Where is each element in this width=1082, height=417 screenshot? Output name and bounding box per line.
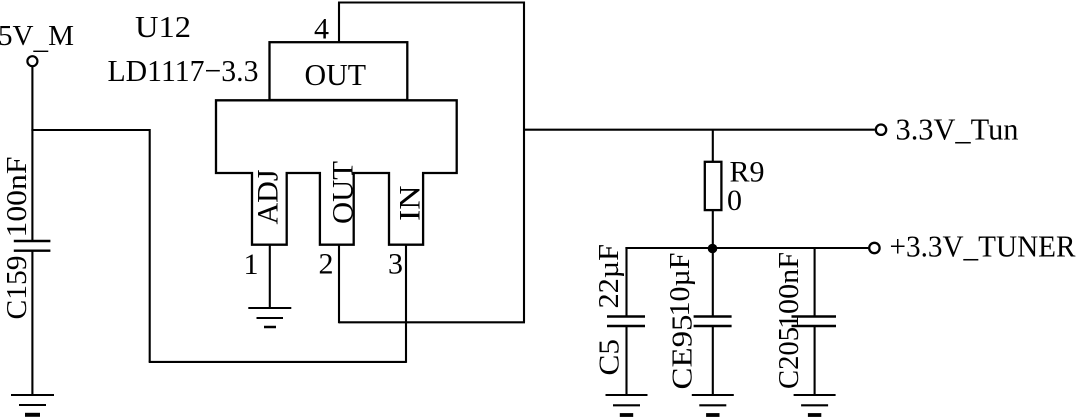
wire branch bottom horizontal to pin 3 bbox=[149, 361, 406, 363]
svg-text:C5: C5 bbox=[594, 339, 626, 376]
svg-text:100nF: 100nF bbox=[773, 252, 805, 329]
wire C159 bottom plate to ground bbox=[31, 252, 33, 396]
svg-text:C159: C159 bbox=[1, 256, 33, 320]
capacitor C159 plates bbox=[14, 240, 51, 242]
svg-text:IN: IN bbox=[394, 186, 427, 222]
svg-text:+3.3V_TUNER: +3.3V_TUNER bbox=[890, 229, 1076, 264]
svg-text:C205: C205 bbox=[773, 327, 805, 389]
wire rail down to R9 top bbox=[712, 130, 714, 162]
capacitor C205 plates bbox=[792, 315, 837, 317]
terminal +3.3V_TUNER bbox=[869, 243, 879, 253]
resistor R9 body bbox=[705, 162, 722, 210]
wire R9 bottom to node bbox=[712, 210, 714, 248]
wire pin 2 OUT vertical bbox=[338, 244, 340, 323]
wire 5V_M down to C159 top plate bbox=[31, 67, 33, 240]
wire CE95 bottom to ground bbox=[712, 326, 714, 395]
wire branch vertical down bbox=[149, 129, 151, 362]
wire rail bottom to pin 2 bbox=[339, 321, 525, 323]
svg-text:10µF: 10µF bbox=[664, 253, 696, 317]
ground under C5 bbox=[606, 394, 648, 396]
svg-text:3: 3 bbox=[388, 248, 403, 281]
ground under C205 bbox=[794, 394, 836, 396]
regulator U12 tab rectangle (pin 4 OUT) bbox=[270, 42, 408, 100]
ground at pin 1 bbox=[248, 307, 291, 309]
svg-text:22µF: 22µF bbox=[593, 244, 625, 309]
wire right rail vertical bbox=[523, 2, 525, 323]
regulator U12 body outline with three legs bbox=[216, 100, 457, 244]
wire +3.3V_TUNER rail bbox=[625, 247, 868, 249]
terminal 5V_M bbox=[27, 56, 37, 66]
wire pin 4 up from tab bbox=[338, 3, 340, 43]
svg-text:OUT: OUT bbox=[305, 57, 367, 92]
svg-text:U12: U12 bbox=[135, 9, 191, 44]
node junction dot R9/CE95/+3.3V_TUNER bbox=[708, 244, 718, 254]
ground under C159 bbox=[11, 394, 54, 396]
wire output to 3.3V_Tun terminal bbox=[524, 129, 875, 131]
svg-text:4: 4 bbox=[314, 13, 329, 46]
svg-text:2: 2 bbox=[319, 248, 334, 281]
svg-text:100nF: 100nF bbox=[1, 157, 33, 238]
svg-text:ADJ: ADJ bbox=[252, 169, 285, 224]
svg-text:CE95: CE95 bbox=[667, 315, 699, 390]
capacitor CE95 plates bbox=[694, 315, 732, 317]
svg-text:OUT: OUT bbox=[327, 161, 360, 224]
ground under CE95 bbox=[692, 394, 734, 396]
svg-text:1: 1 bbox=[244, 248, 259, 281]
terminal 3.3V_Tun bbox=[876, 125, 886, 135]
svg-text:3.3V_Tun: 3.3V_Tun bbox=[896, 112, 1019, 147]
wire pin 1 ADJ down to ground bbox=[269, 244, 271, 308]
svg-text:0: 0 bbox=[727, 184, 742, 217]
wire branch from 5V_M rail to the right bbox=[31, 129, 149, 131]
wire C5 bottom to ground bbox=[625, 326, 627, 395]
wire CE95 top from node bbox=[712, 248, 714, 317]
wire C205 top bbox=[814, 247, 816, 317]
wire C205 bottom to ground bbox=[814, 326, 816, 395]
svg-text:5V_M: 5V_M bbox=[0, 20, 74, 56]
wire top horizontal to right rail bbox=[338, 1, 524, 3]
capacitor C5 plates bbox=[607, 315, 645, 317]
svg-text:LD1117−3.3: LD1117−3.3 bbox=[108, 53, 259, 88]
wire C5 top bbox=[625, 247, 627, 317]
wire pin 3 IN vertical bbox=[405, 244, 407, 363]
